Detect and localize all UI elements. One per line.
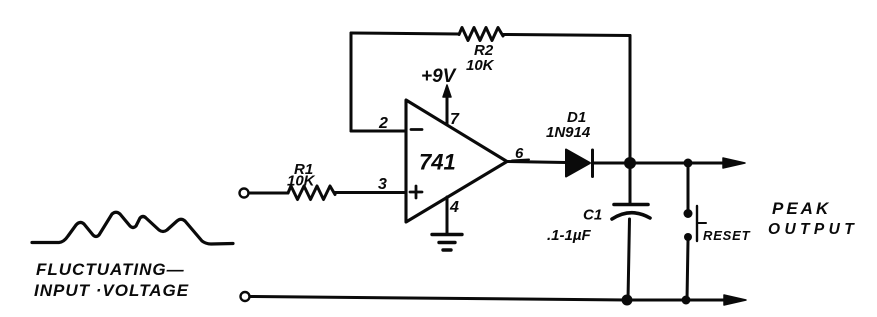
resistor R2 (459, 28, 503, 41)
svg-text:10K: 10K (287, 173, 316, 190)
wire node to reset node (630, 162, 688, 165)
resistor R1 (288, 186, 335, 200)
fluctuating waveform (32, 212, 233, 244)
svg-text:OUTPUT: OUTPUT (768, 221, 858, 238)
wire feedback top-right horizontal (503, 35, 630, 36)
node junction dot bottom-left (622, 295, 633, 306)
wire feedback right vertical (629, 36, 632, 164)
svg-text:4: 4 (449, 199, 459, 216)
wire R1 to pin3 (335, 191, 406, 194)
wire output arrow top (688, 162, 738, 165)
wire capacitor to bottom rail (628, 219, 630, 300)
wire output arrow bottom (724, 295, 746, 305)
node junction dot (reset top) (684, 159, 693, 168)
svg-text:3: 3 (378, 176, 387, 193)
+9V supply arrow (pin 7) (446, 92, 449, 124)
op-amp plus input sign (410, 186, 422, 198)
wire pin 4 stub (446, 197, 449, 233)
wire diode to node (594, 162, 630, 165)
wire input to R1 (249, 192, 288, 195)
wire feedback left vertical (pin2 to top) (350, 33, 353, 131)
op-amp U1 741 triangle (406, 100, 507, 222)
svg-text:RESET: RESET (703, 228, 751, 243)
wire feedback top-left horizontal (351, 33, 459, 34)
svg-text:7: 7 (450, 111, 460, 128)
node junction dot bottom-right (682, 296, 691, 305)
wire pin2 to op-amp (351, 130, 406, 133)
wire op-amp output to diode (507, 162, 566, 163)
svg-text:INPUT ·VOLTAGE: INPUT ·VOLTAGE (34, 281, 189, 300)
ground (432, 233, 462, 236)
wire reset node down (687, 163, 690, 209)
input terminal circle bottom (241, 292, 250, 301)
capacitor C1 (614, 203, 648, 207)
wire node down to capacitor (629, 163, 632, 203)
wire bottom rail (250, 297, 737, 301)
svg-text:PEAK: PEAK (772, 199, 831, 218)
svg-text:741: 741 (419, 150, 456, 175)
svg-text:FLUCTUATING—: FLUCTUATING— (36, 260, 185, 279)
switch reset (pushbutton) (684, 209, 693, 218)
svg-text:2: 2 (378, 115, 388, 132)
wire reset to bottom rail (687, 241, 688, 300)
op-amp minus input sign (411, 128, 422, 131)
svg-text:C1: C1 (583, 207, 602, 224)
svg-text:+9V: +9V (421, 66, 457, 87)
input terminal circle (240, 189, 249, 198)
node junction dot (cap node) (624, 157, 636, 169)
svg-text:10K: 10K (466, 57, 495, 74)
svg-text:.1-1µF: .1-1µF (547, 227, 591, 244)
diode D1 (566, 150, 590, 177)
svg-text:1N914: 1N914 (546, 124, 591, 141)
